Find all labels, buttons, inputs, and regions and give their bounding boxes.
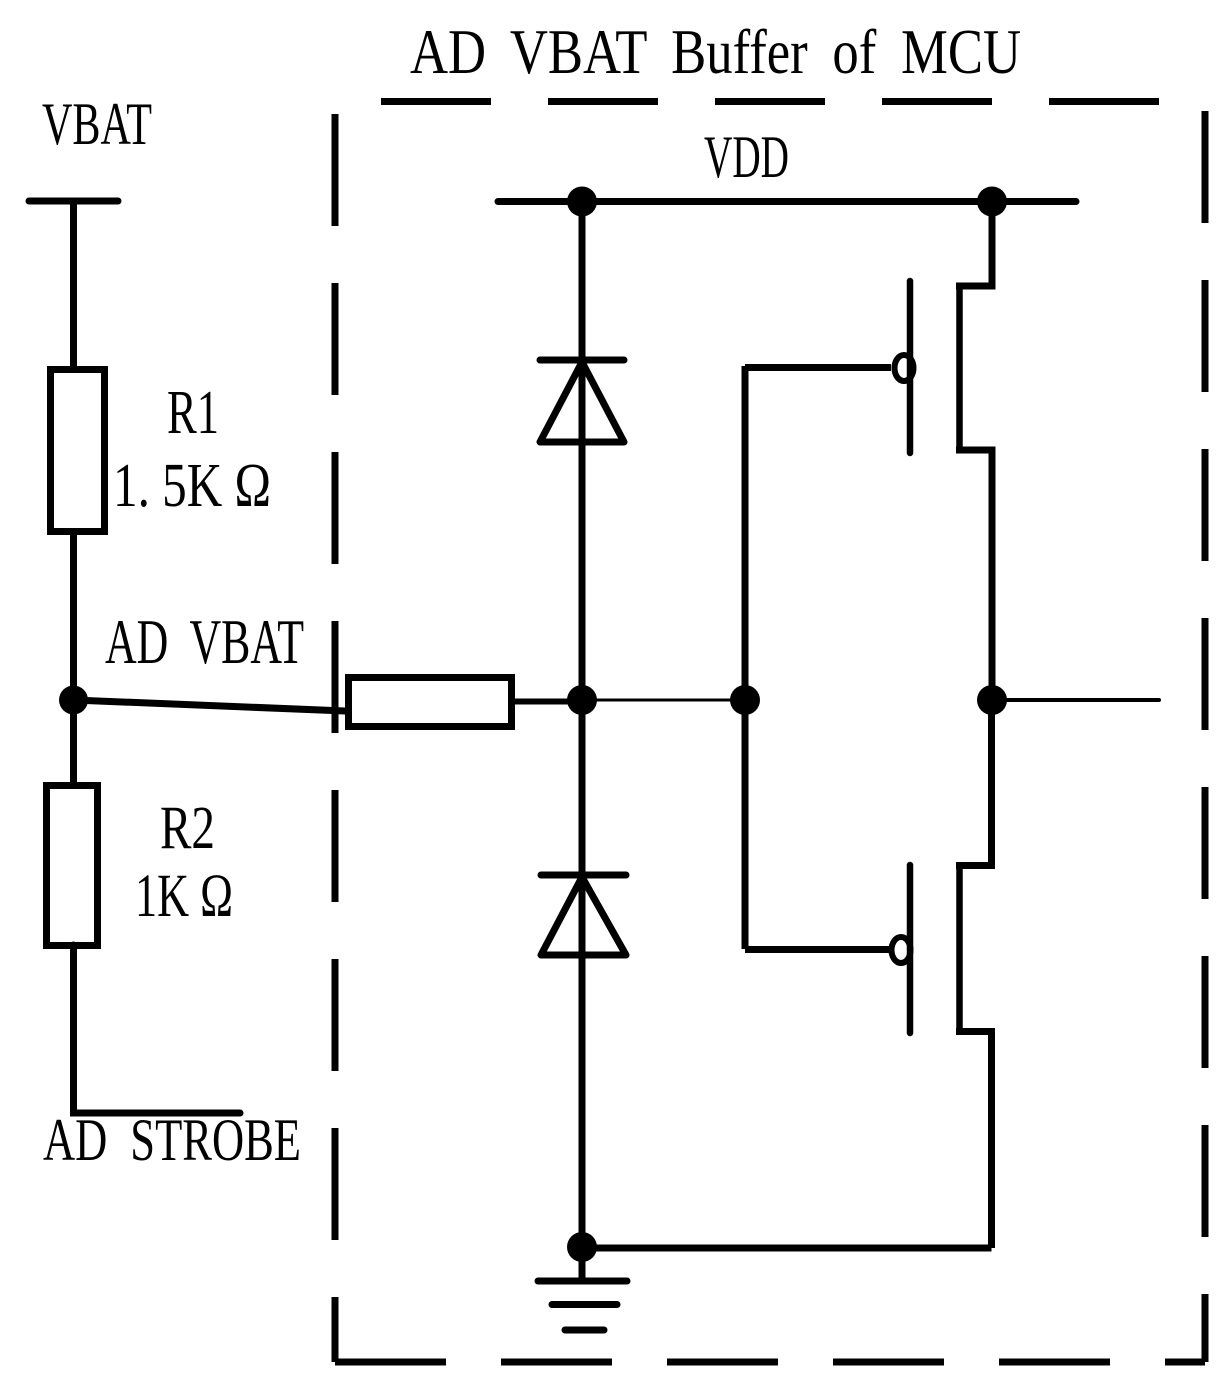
transistor Q1 gate bubble bbox=[895, 355, 914, 381]
ground stub bbox=[579, 1247, 586, 1281]
dashed boundary top (MCU buffer box) bbox=[381, 98, 1205, 105]
node N2 junction dot bbox=[730, 685, 760, 715]
ground bar 3 bbox=[565, 1327, 604, 1334]
transistor Q2 gate bar bbox=[907, 865, 914, 1033]
dashed boundary left bbox=[332, 114, 339, 1362]
svg-text:R1: R1 bbox=[167, 379, 219, 447]
transistor Q1 source connection to VDD bbox=[956, 201, 992, 286]
transistor Q1 (PMOS) gate wire bbox=[745, 364, 891, 371]
transistor Q1 gate bar bbox=[907, 281, 914, 453]
VDD junction dot right bbox=[977, 187, 1007, 217]
svg-text:1K Ω: 1K Ω bbox=[135, 863, 233, 930]
wire node N1 to gate node N2 bbox=[582, 699, 745, 702]
transistor Q2 source connection to ground rail bbox=[956, 1032, 992, 1249]
transistor Q1 drain connection bbox=[956, 450, 992, 700]
ground bar 1 bbox=[538, 1278, 627, 1285]
wire VDD to diode D1 cathode bbox=[579, 202, 586, 702]
series resistor (input) bbox=[349, 678, 512, 727]
svg-text:AD VBAT Buffer of MCU: AD VBAT Buffer of MCU bbox=[410, 16, 1021, 87]
node OUT junction dot bbox=[977, 685, 1007, 715]
wire D2 anode to ground node bbox=[579, 700, 586, 1247]
transistor Q1 channel bar bbox=[956, 286, 963, 450]
ground rail wire bbox=[582, 1245, 992, 1252]
wire node AD_VBAT to R2 bbox=[70, 700, 77, 785]
svg-text:AD STROBE: AD STROBE bbox=[43, 1107, 301, 1173]
wire output bbox=[992, 698, 1159, 702]
wire R1 to node AD_VBAT bbox=[70, 535, 77, 700]
ground bar 2 bbox=[552, 1301, 617, 1308]
VBAT terminal bar bbox=[29, 198, 118, 205]
diode D1 cathode bar bbox=[540, 357, 624, 364]
transistor Q2 (NMOS) gate wire bbox=[745, 946, 891, 953]
node N1 junction dot bbox=[567, 685, 597, 715]
dashed boundary right bbox=[1202, 111, 1209, 1362]
wire node AD_VBAT to series resistor bbox=[74, 700, 346, 711]
diode D1 triangle bbox=[540, 362, 624, 442]
svg-text:AD VBAT: AD VBAT bbox=[105, 606, 304, 677]
diode D2 cathode bar bbox=[541, 872, 626, 879]
transistor Q2 channel bar bbox=[956, 866, 963, 1032]
VDD junction dot left bbox=[567, 187, 597, 217]
diode D2 triangle bbox=[541, 877, 626, 955]
svg-text:VBAT: VBAT bbox=[42, 91, 152, 157]
svg-text:VDD: VDD bbox=[704, 124, 789, 190]
wire R2 to AD_STROBE bbox=[74, 945, 241, 1113]
resistor R1 bbox=[51, 370, 105, 532]
transistor Q2 gate bubble bbox=[892, 937, 911, 963]
dashed boundary bottom bbox=[335, 1359, 1205, 1366]
node AD_VBAT junction dot bbox=[59, 686, 88, 715]
wire VBAT to R1 bbox=[70, 201, 77, 369]
svg-text:R2: R2 bbox=[160, 795, 215, 862]
wire series resistor to node N1 bbox=[512, 699, 582, 705]
ground node junction dot bbox=[567, 1232, 597, 1262]
VDD rail wire bbox=[498, 198, 1076, 205]
wire gate bus vertical bbox=[742, 366, 749, 949]
resistor R2 bbox=[47, 786, 98, 946]
svg-text:1. 5K Ω: 1. 5K Ω bbox=[113, 452, 271, 520]
transistor Q2 drain connection to node OUT bbox=[956, 700, 992, 866]
